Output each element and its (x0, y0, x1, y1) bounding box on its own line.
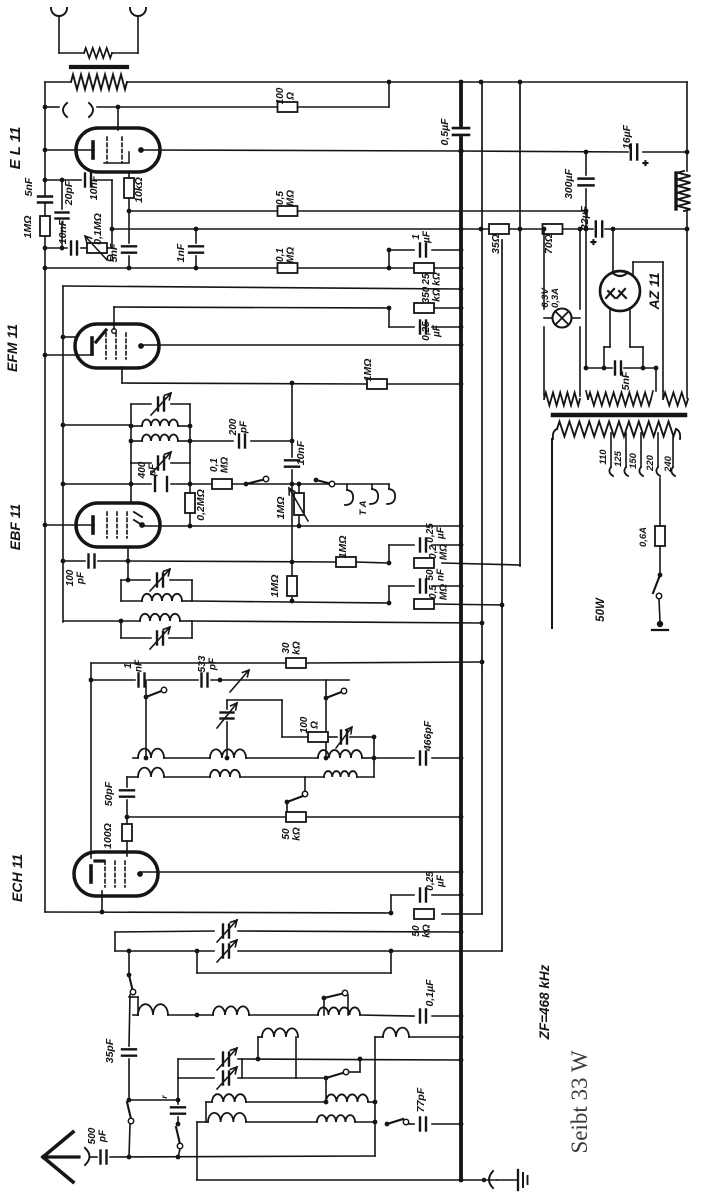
label 1M y384 (362, 359, 374, 382)
wire ECH11 cathode lead (101, 891, 103, 912)
node box left top (89, 678, 94, 683)
node ECH anode end (459, 870, 464, 875)
node y602 (290, 599, 505, 608)
ground symbol (497, 1170, 528, 1190)
svg-text:110: 110 (598, 449, 609, 465)
svg-text:50: 50 (425, 569, 436, 581)
mains terminal (652, 621, 668, 630)
wire antenna line (90, 1156, 375, 1157)
IF2 secondary coil (121, 614, 192, 621)
capacitor 10nF lower (71, 242, 77, 255)
svg-text:0,1: 0,1 (275, 248, 286, 262)
wire line y932 (115, 931, 461, 932)
terminal hook ground (482, 1171, 493, 1188)
svg-text:kΩ: kΩ (292, 641, 303, 655)
label 1nF (175, 243, 187, 262)
wire 5nF heater line (586, 368, 656, 391)
trimmer y1078 (217, 1067, 237, 1089)
svg-text:Ω: Ω (310, 721, 321, 730)
label 20pF (63, 180, 75, 206)
node rowA (195, 1013, 464, 1019)
IF1 primary trimmer (151, 393, 171, 415)
label 50k y914 (411, 924, 433, 938)
label 0.25uF y327 (421, 321, 443, 341)
resistor 50k y914 (414, 909, 434, 919)
node y268 junction (387, 266, 392, 271)
rectifier AZ11 (600, 271, 640, 311)
wire line y562 (128, 561, 520, 565)
capacitor 10nF top (85, 174, 91, 187)
svg-text:100: 100 (275, 87, 286, 104)
node IF2 grid (126, 578, 131, 583)
wire osc riser x129 upper (127, 951, 136, 1046)
label 10nF lower (57, 219, 69, 244)
node y912 (100, 910, 394, 916)
node y932 end (459, 930, 464, 935)
svg-text:T A: T A (358, 500, 369, 515)
label tap 110 (598, 449, 609, 465)
svg-text:10nF: 10nF (295, 440, 307, 465)
svg-text:1nF: 1nF (175, 243, 187, 262)
trimmer after 100 Ohm (336, 727, 374, 748)
wire mains drop x552 (551, 439, 553, 628)
wire grid line y484 (63, 483, 389, 485)
wire x374 drop (373, 737, 375, 777)
label 10nF top (88, 175, 100, 200)
wire 200pF line (190, 440, 292, 442)
label 100 Ohm top (275, 87, 297, 104)
IF2 primary trimmer (150, 569, 170, 591)
svg-text:35pF: 35pF (104, 1038, 116, 1063)
wire line y951 (115, 950, 502, 952)
wire EBF11 grid lead (130, 484, 132, 503)
svg-text:1MΩ: 1MΩ (362, 359, 374, 382)
tube ECH11 (74, 852, 158, 896)
node riser129 (127, 209, 132, 271)
label tap 240 (663, 455, 674, 473)
svg-text:77pF: 77pF (415, 1087, 427, 1112)
capacitor 1uF (420, 244, 426, 257)
node y307 (387, 306, 464, 311)
label 1M vert x292 (269, 575, 281, 598)
svg-text:1: 1 (123, 663, 134, 669)
coupler arcs (63, 103, 93, 117)
label 5nF az (620, 371, 632, 390)
label tap 220 (645, 454, 656, 472)
wire v375 (374, 1037, 376, 1156)
wire EL11 anode line y151 (142, 150, 687, 152)
node 0.25 ech end (459, 893, 464, 898)
label 50k y817 (281, 827, 303, 841)
antenna (43, 1132, 79, 1182)
IF1 secondary bottom (131, 462, 190, 464)
label 0.2M vert (195, 489, 207, 521)
resistor 1M y384 (367, 379, 387, 389)
IF1 secondary trimmer (151, 452, 171, 474)
coil rowC (197, 1113, 375, 1122)
svg-text:pF: pF (76, 571, 87, 585)
wire EL11 bottom riser x129 (128, 172, 130, 268)
svg-text:10nF: 10nF (57, 219, 69, 244)
wire stub 0.25uF mid (388, 545, 390, 563)
wire EBF11 cathode feed (45, 524, 94, 526)
wire EBF11 to IF2 (127, 561, 129, 580)
svg-text:AZ 11: AZ 11 (646, 272, 662, 310)
svg-text:MΩ: MΩ (286, 247, 297, 263)
svg-text:kΩ: kΩ (292, 827, 303, 841)
wire rail x502 (501, 240, 503, 951)
wire 0.25uF line y545 (389, 544, 461, 546)
switch box b (324, 680, 347, 758)
label 0.1uF (424, 979, 436, 1007)
svg-text:50W: 50W (595, 597, 607, 622)
IF1 primary coil (131, 420, 190, 426)
label 0.1M y268 (275, 247, 297, 263)
label 0.2M y563 (428, 544, 450, 560)
wire 100pF line (63, 560, 128, 562)
wire stub 350k (388, 308, 390, 327)
node y621 (119, 619, 485, 626)
osc coil mid (258, 1028, 298, 1078)
wire 1uF line (389, 249, 461, 251)
wire top rail right corner (686, 82, 688, 152)
node rail V1 junctions (43, 178, 48, 528)
label 70 Ohm (543, 234, 555, 254)
wire line y307 (114, 307, 461, 308)
resistor 1M vert x292 (287, 576, 297, 596)
wire fuse line (659, 478, 661, 575)
resistor 10k (124, 178, 134, 198)
coil rowB (206, 1094, 375, 1104)
label 400pF (137, 461, 159, 479)
wire stub 1uF-25k (388, 250, 390, 268)
svg-text:100: 100 (65, 569, 76, 586)
label 50W (595, 597, 607, 622)
svg-text:Seibt 33 W: Seibt 33 W (567, 1050, 592, 1153)
wire 400pF side links (131, 463, 190, 484)
label 466pF (422, 720, 434, 752)
node rowB (373, 1100, 378, 1105)
node y229 junctions (459, 227, 690, 232)
wire lamp right leg (579, 229, 581, 396)
svg-text:0,5: 0,5 (275, 191, 286, 205)
wire bottom rect (197, 1122, 461, 1180)
node 466pF ends (372, 756, 464, 761)
svg-text:0,25: 0,25 (425, 523, 436, 543)
label TA (358, 500, 369, 515)
capacitor 0.5uF bus (453, 128, 469, 135)
wire stub 0.25 ech (391, 895, 461, 913)
power transformer core (553, 413, 685, 418)
svg-text:EFM 11: EFM 11 (4, 324, 20, 372)
wire 300uF riser x586 (585, 152, 587, 368)
svg-text:0,2MΩ: 0,2MΩ (195, 489, 207, 521)
winding HV (663, 391, 688, 406)
wire 50pF riser (126, 777, 128, 817)
svg-text:pF: pF (98, 1129, 109, 1143)
svg-text:25: 25 (421, 273, 432, 286)
svg-text:E L 11: E L 11 (7, 127, 24, 170)
resistor 0.2M y563 (414, 558, 434, 568)
label 25k (421, 272, 443, 286)
svg-text:µF: µF (422, 230, 433, 244)
node 0.25 mid (459, 543, 464, 548)
wire EFM11 slant stub (63, 336, 76, 338)
wire EL11 cathode feed (45, 149, 94, 151)
resistor hum-bucking coil (84, 48, 112, 58)
hooks TA (370, 484, 395, 504)
switch y1079 (324, 1059, 360, 1102)
label ZF=468kHz (537, 964, 552, 1040)
wire EFM11 bottom lead (121, 367, 123, 383)
node bottom bus end (459, 1178, 464, 1183)
capacitor 0.25uF ech (420, 889, 426, 902)
label 1M y562 (337, 536, 349, 559)
wire line y383 (122, 383, 461, 384)
capacitor 100pF (89, 555, 95, 568)
svg-text:220: 220 (645, 454, 656, 472)
tube EFM11 (75, 324, 159, 368)
hook y484 (345, 484, 353, 505)
node box top right (480, 660, 485, 665)
capacitor 1nF (189, 246, 203, 252)
resistor 0.2M vert (185, 493, 195, 513)
tube EBF11 (76, 503, 160, 547)
wire 1nF riser x196 (195, 229, 197, 268)
tube EL11 (76, 128, 160, 172)
node y1059 (256, 1057, 464, 1063)
resistor field coil (676, 171, 691, 211)
wire AZ11 filament legs (604, 308, 643, 368)
svg-text:kΩ: kΩ (432, 288, 443, 302)
label 0.25uF mid (425, 523, 447, 543)
wire box top y663 (91, 662, 482, 663)
label EL11 (7, 127, 24, 170)
IF1 secondary coil (131, 435, 190, 441)
svg-text:100: 100 (299, 716, 310, 733)
wire pot riser x112 (111, 180, 113, 248)
coil row1 (133, 749, 374, 758)
label EBF11 (7, 504, 23, 551)
switch box a (144, 680, 167, 758)
svg-text:1: 1 (411, 234, 422, 240)
label 533pF (197, 655, 219, 672)
svg-text:30: 30 (281, 642, 292, 654)
capacitor 10nF mid (285, 460, 299, 466)
winding lamp heater (544, 393, 580, 406)
svg-text:0,1: 0,1 (209, 458, 220, 472)
label 0.6A (638, 527, 649, 547)
switch row2 (285, 777, 308, 817)
svg-text:kΩ: kΩ (422, 924, 433, 938)
wire screen line y287 (63, 286, 461, 289)
svg-text:10nF: 10nF (88, 175, 100, 200)
label 0.25uF ech (425, 871, 447, 891)
svg-text:0,1MΩ: 0,1MΩ (92, 213, 104, 245)
wire speaker top (59, 52, 138, 54)
label tap 125 (613, 450, 624, 467)
capacitor 1nF box (139, 674, 145, 687)
svg-text:pF: pF (148, 463, 159, 477)
svg-text:350: 350 (421, 286, 432, 303)
wire 0.25uF line y327 (389, 326, 461, 328)
output transformer core (71, 65, 127, 69)
wire caps line y680 (91, 679, 349, 681)
wire osc riser x129 lower (127, 1059, 134, 1157)
wire stub 50nF (388, 586, 390, 603)
svg-text:0,3A: 0,3A (550, 288, 561, 308)
resistor 100 Ohm top (278, 102, 298, 112)
label 350k (421, 286, 443, 303)
capacitor osc x178 (159, 1095, 185, 1114)
svg-text:+: + (641, 160, 652, 166)
label 300uF (563, 168, 575, 199)
node y484 left (61, 482, 66, 487)
svg-text:pF: pF (208, 657, 219, 671)
resistor 50k y817 (286, 812, 306, 822)
label 16uF (621, 124, 633, 149)
label 5nF rail (23, 177, 35, 196)
wire line y211 (129, 210, 586, 212)
wire mains taps (611, 433, 673, 467)
wire line y602 (192, 601, 502, 605)
wire B+ top rail (45, 81, 687, 83)
capacitor 35pF (122, 1049, 136, 1055)
wire 466pF line (374, 757, 461, 759)
wire line y229 (112, 228, 687, 230)
svg-text:5nF: 5nF (620, 371, 632, 390)
svg-text:50: 50 (281, 828, 292, 840)
capacitor 32uF (589, 222, 602, 246)
svg-text:466pF: 466pF (422, 720, 434, 752)
speaker terminal left (51, 8, 67, 53)
resistor 100 Ohm vert (122, 824, 132, 841)
resistor 25k (414, 263, 434, 273)
fuse 0.6A (655, 526, 665, 546)
osc coil right top (375, 1028, 461, 1037)
node y383 (290, 381, 464, 387)
node IF1 frame (129, 424, 193, 444)
capacitor 0.1uF (420, 1010, 426, 1023)
resistor 0.5M y604 (414, 599, 434, 609)
capacitor 77pF (420, 1118, 461, 1131)
wire pot line y248 (45, 247, 86, 249)
trimmer y932 (217, 920, 237, 942)
resistor 350k (414, 303, 434, 313)
node B+ rail junctions (387, 80, 523, 85)
potentiometer 1M (289, 488, 308, 521)
IF2 primary coil (121, 594, 192, 601)
label 1uF (411, 230, 433, 244)
capacitor 20pF (56, 213, 69, 219)
node 1nF ends (194, 227, 199, 271)
node 77pF end (459, 1122, 464, 1127)
wire link y997 (129, 997, 138, 1015)
IF2 secondary frame (121, 621, 192, 638)
wire lamp left leg (543, 229, 545, 396)
capacitor 0.25uF y327 (420, 321, 426, 334)
capacitor 300uF (579, 179, 594, 186)
svg-text:MΩ: MΩ (220, 457, 231, 473)
switch rowA (322, 990, 348, 1015)
svg-text:0,6A: 0,6A (638, 527, 649, 547)
resistor 0.1M y484 (212, 479, 232, 489)
svg-text:0,2: 0,2 (428, 545, 439, 559)
wire IF2 feed y621 (63, 621, 482, 623)
potentiometer 0.1M (85, 236, 113, 261)
node antenna line (127, 1155, 181, 1160)
svg-text:5nF: 5nF (23, 177, 35, 196)
wire AZ11 plate2 link (633, 262, 663, 391)
svg-text:10kΩ: 10kΩ (133, 177, 145, 203)
wire EBF11 bottom lead (127, 547, 129, 561)
capacitor 500pF (101, 1151, 107, 1164)
resistor 0.1M y268 (278, 263, 298, 273)
IF2 secondary trimmer (150, 627, 170, 649)
wire 100ohm top link (227, 700, 282, 737)
antenna coupler arc (85, 1148, 90, 1165)
svg-text:ECH 11: ECH 11 (9, 854, 25, 902)
trimmer box mid (217, 700, 237, 758)
wire pot ends (298, 484, 300, 526)
wire U jog (197, 951, 391, 973)
wire AZ11 anode riser (612, 229, 614, 272)
svg-text:1MΩ: 1MΩ (269, 575, 281, 598)
wire 20pF riser (61, 180, 63, 248)
label 0.1M pot (92, 213, 104, 245)
node v375 (373, 1120, 378, 1125)
node 20pF ends (60, 178, 65, 251)
resistor 0.5M y211 (278, 206, 298, 216)
node osc top right (459, 1035, 464, 1040)
output transformer primary winding (71, 75, 127, 90)
svg-text:kΩ: kΩ (432, 272, 443, 286)
label 77pF (415, 1087, 427, 1112)
wire EFM11 cathode feed (45, 354, 93, 356)
coil rowA (133, 1004, 461, 1016)
label Seibt 33 W (567, 1050, 592, 1153)
label 10k (133, 177, 145, 203)
capacitor 200pF (239, 435, 245, 448)
capacitor 533pF trimmer (202, 670, 250, 692)
resistor 1M rail (40, 216, 50, 236)
label lamp 6.3V 0.3A (540, 288, 561, 308)
capacitor 50nF (420, 580, 426, 593)
wire line y1078 (178, 1077, 326, 1079)
coil row2 (127, 768, 374, 777)
svg-text:+: + (589, 239, 600, 245)
wire y180 line (45, 179, 112, 181)
terminal hooks taps (609, 467, 675, 476)
label 0.1M y484 (209, 457, 231, 473)
label 1M rail (22, 216, 34, 239)
wire EBF11 anode line (142, 525, 461, 527)
svg-text:0,1µF: 0,1µF (424, 979, 436, 1007)
wire link y1100 (129, 1099, 178, 1101)
label tap 150 (628, 452, 639, 469)
node y484 junctions (129, 482, 302, 487)
svg-text:50: 50 (411, 925, 422, 937)
wire rail x520 (519, 82, 521, 566)
speaker terminal right (130, 8, 146, 53)
label 0.5uF (439, 118, 451, 146)
wire cathode line y912 (45, 912, 482, 914)
switch y484 a (244, 476, 269, 486)
svg-text:150: 150 (628, 452, 639, 469)
node y211 end (584, 209, 589, 214)
node y107 (43, 105, 121, 110)
node 100ohm net (372, 735, 377, 740)
